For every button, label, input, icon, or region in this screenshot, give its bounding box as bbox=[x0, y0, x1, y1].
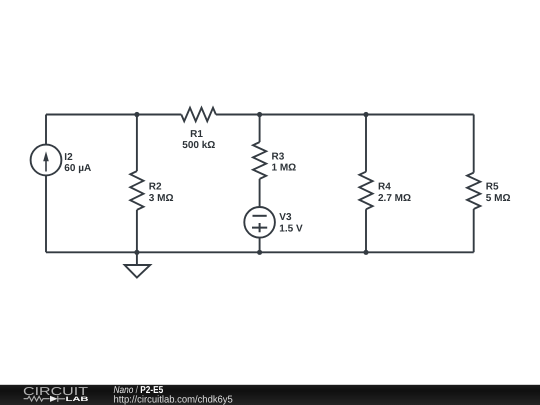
svg-text:I2: I2 bbox=[64, 152, 73, 163]
svg-text:60 µA: 60 µA bbox=[64, 163, 91, 174]
svg-text:500 kΩ: 500 kΩ bbox=[182, 140, 215, 151]
svg-text:R3: R3 bbox=[272, 151, 285, 162]
svg-text:LAB: LAB bbox=[66, 396, 90, 403]
svg-text:R5: R5 bbox=[486, 182, 499, 193]
svg-text:5 MΩ: 5 MΩ bbox=[486, 193, 511, 204]
svg-text:R2: R2 bbox=[149, 182, 162, 193]
svg-text:1.5 V: 1.5 V bbox=[279, 223, 303, 234]
svg-text:V3: V3 bbox=[279, 212, 292, 223]
svg-text:http://circuitlab.com/chdk6y5: http://circuitlab.com/chdk6y5 bbox=[114, 394, 234, 405]
svg-text:1 MΩ: 1 MΩ bbox=[272, 163, 297, 174]
svg-text:2.7 MΩ: 2.7 MΩ bbox=[378, 193, 411, 204]
svg-text:3 MΩ: 3 MΩ bbox=[149, 193, 174, 204]
svg-text:R1: R1 bbox=[190, 129, 203, 140]
svg-text:R4: R4 bbox=[378, 181, 391, 192]
